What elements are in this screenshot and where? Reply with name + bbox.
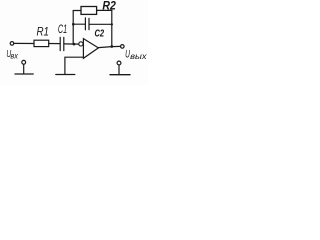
input terminal lower [22,60,26,64]
svg-text:R1: R1 [37,26,50,38]
wire C2 left [73,23,85,25]
ground bar middle [56,74,75,76]
junction dot left C2 tap [72,23,75,26]
wire input lower stem [23,64,25,73]
svg-text:вых: вых [130,52,147,61]
capacitor C1 [60,37,64,50]
ground bar right [110,74,130,76]
wire feedback left vertical [72,11,74,45]
resistor R2 [81,7,97,15]
output terminal upper [121,45,125,49]
svg-text:вх: вх [10,51,18,60]
op-amp inverting input bubble [79,42,83,46]
junction dot right C2 tap [111,23,113,25]
wire R1 to C1 [49,43,60,45]
capacitor C2 [85,18,89,30]
wire R2 right [97,9,112,11]
node A junction dot [73,43,76,46]
wire to R2 left [73,10,81,12]
node output junction dot [110,45,113,48]
ground bar left [15,73,33,75]
wire feedback right vertical [111,10,113,46]
op-amp U1 triangle [83,39,98,59]
wire input to R1 [14,42,34,44]
input terminal upper [10,42,14,46]
wire output lower stem [118,65,120,74]
wire C1 to node A [64,43,79,45]
wire op-amp output [98,46,120,47]
wire non-inverting input [65,57,84,74]
svg-text:C1: C1 [58,24,67,36]
svg-text:C2: C2 [95,28,105,39]
output terminal lower [117,61,121,65]
resistor R1 [34,40,49,46]
wire C2 right [89,23,112,25]
